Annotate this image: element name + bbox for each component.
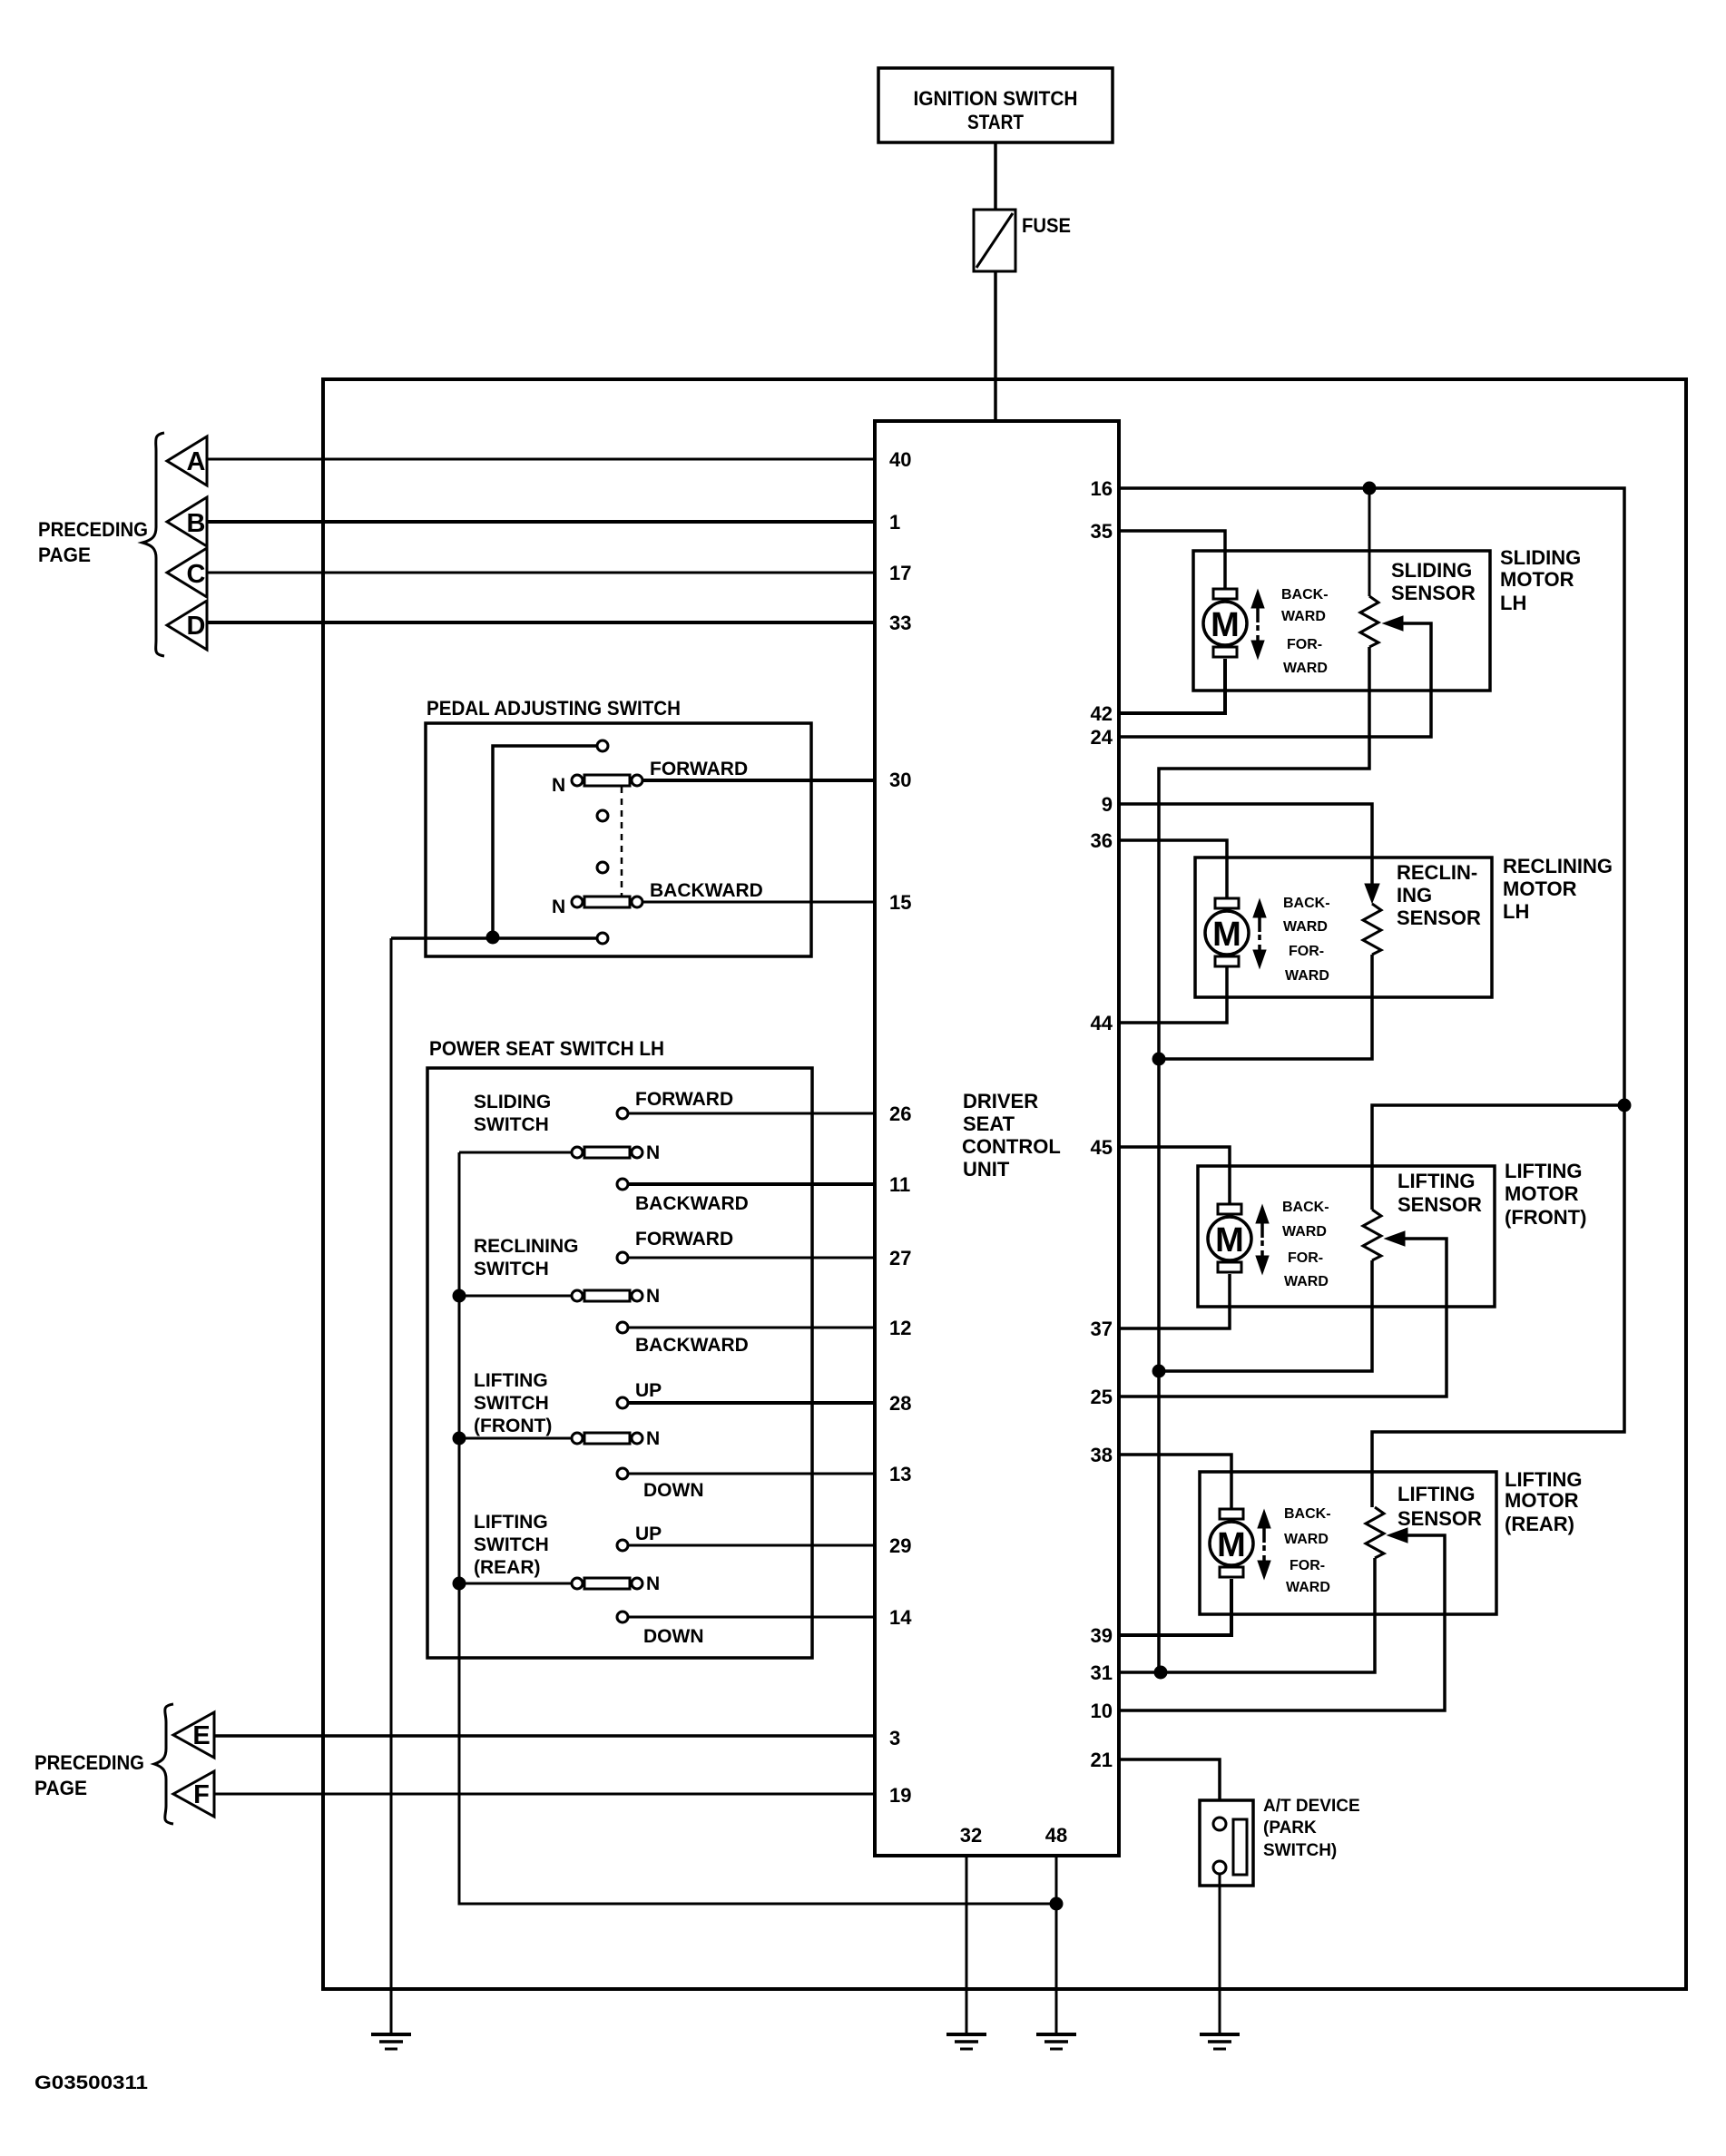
motor M3 (lifting front) (1208, 1204, 1251, 1272)
svg-text:BACKWARD: BACKWARD (635, 1193, 749, 1214)
wire pin 42 to sliding motor (1119, 659, 1225, 713)
label PRECEDING PAGE (top) (38, 518, 148, 566)
label LIFTING SWITCH (REAR) (474, 1512, 549, 1578)
wire pedal forward to pin 30 (643, 779, 875, 782)
svg-text:N: N (552, 775, 565, 796)
svg-text:FOR-: FOR- (1287, 637, 1322, 652)
svg-text:39: 39 (1091, 1624, 1113, 1647)
svg-text:40: 40 (889, 448, 911, 471)
label FOR-WARD (front) (1284, 1250, 1329, 1289)
wire pin 21 to A/T device (1119, 1759, 1220, 1818)
ground G2 (pin 32) (946, 2034, 986, 2049)
svg-text:FORWARD: FORWARD (635, 1089, 733, 1110)
label LIFTING SENSOR (front) (1397, 1170, 1482, 1216)
svg-text:SENSOR: SENSOR (1397, 1193, 1482, 1216)
wire pin 37 to lifting front motor (1119, 1274, 1230, 1328)
wire 16 rail branch to lifting front sensor top (1372, 1105, 1624, 1210)
arrow up (sliding backward) (1251, 590, 1264, 622)
label BACK-WARD (rear) (1284, 1506, 1331, 1547)
wire pin 35 to sliding motor (1119, 531, 1225, 591)
lifting front switch N contacts (572, 1433, 642, 1444)
label RECLINING SWITCH (474, 1236, 579, 1279)
wire E to pin 3 (214, 1734, 875, 1738)
svg-text:B: B (187, 509, 206, 538)
svg-text:LH: LH (1503, 900, 1529, 923)
label BACK-WARD (front) (1282, 1200, 1329, 1240)
label LIFTING SWITCH (FRONT) (474, 1370, 552, 1436)
wire sliding forward to pin 26 (628, 1112, 875, 1115)
svg-text:3: 3 (889, 1727, 900, 1749)
label SLIDING SENSOR (1391, 559, 1476, 604)
svg-text:(PARK: (PARK (1263, 1818, 1317, 1837)
junction pin16 to sliding sensor (1363, 482, 1376, 495)
svg-text:M: M (1212, 916, 1241, 954)
reclining motor LH box (1195, 857, 1492, 997)
svg-text:N: N (552, 897, 565, 917)
svg-text:26: 26 (889, 1102, 911, 1125)
junction N bus reclining (453, 1289, 466, 1302)
reclining switch N contacts (572, 1290, 642, 1301)
svg-text:LIFTING: LIFTING (474, 1512, 548, 1533)
svg-text:36: 36 (1091, 829, 1113, 852)
wire pin 39 to lifting rear motor (1119, 1579, 1231, 1635)
svg-text:BACK-: BACK- (1281, 587, 1329, 603)
arrow up (front backward) (1256, 1205, 1269, 1238)
svg-text:SWITCH: SWITCH (474, 1114, 549, 1135)
wire pin 9 to reclining sensor (1119, 804, 1372, 887)
svg-text:ING: ING (1397, 884, 1432, 906)
svg-text:15: 15 (889, 891, 911, 914)
arrowhead sliding wiper (1383, 616, 1403, 631)
wire lifting rear sensor bottom to pin 31 (1119, 1558, 1375, 1672)
label LIFTING SENSOR (rear) (1397, 1483, 1482, 1530)
lifting rear up contact (617, 1540, 628, 1551)
lifting rear down contact (617, 1612, 628, 1622)
label SLIDING MOTOR LH (1500, 546, 1581, 614)
wire A to pin 40 (207, 458, 875, 461)
svg-text:WARD: WARD (1285, 968, 1329, 984)
wire pin 45 to lifting front motor (1119, 1147, 1230, 1205)
svg-text:32: 32 (960, 1824, 982, 1847)
arrow up (rear backward) (1258, 1510, 1270, 1543)
wire pin 25 to lifting front sensor wiper (1119, 1239, 1447, 1396)
sliding motor LH box (1193, 551, 1490, 691)
wire pin 10 to lifting rear sensor wiper (1119, 1535, 1445, 1710)
wire lifting rear down to pin 14 (628, 1616, 875, 1619)
svg-text:44: 44 (1091, 1012, 1113, 1034)
lifting front down contact (617, 1468, 628, 1479)
ground G3 (pin 48) (1036, 2034, 1076, 2049)
svg-text:(REAR): (REAR) (1505, 1513, 1574, 1535)
wire sliding sensor top (1368, 488, 1371, 596)
power seat switch box S2 (427, 1068, 812, 1658)
svg-text:PRECEDING: PRECEDING (34, 1751, 144, 1774)
svg-text:MOTOR: MOTOR (1505, 1182, 1579, 1205)
svg-text:N: N (646, 1428, 660, 1449)
wire reclining sensor bottom to return bus (1159, 955, 1372, 1059)
label SLIDING SWITCH (474, 1092, 551, 1135)
svg-text:SENSOR: SENSOR (1397, 1507, 1482, 1530)
svg-text:UNIT: UNIT (963, 1158, 1010, 1181)
lifting rear sensor resistor R4 (1366, 1507, 1384, 1558)
svg-text:M: M (1217, 1526, 1246, 1564)
svg-text:38: 38 (1091, 1444, 1113, 1466)
wire C to pin 17 (207, 572, 875, 574)
svg-text:FUSE: FUSE (1022, 214, 1071, 237)
ignition switch box (878, 68, 1113, 142)
wire fuse to control unit (994, 271, 997, 421)
svg-text:29: 29 (889, 1534, 911, 1557)
svg-text:BACK-: BACK- (1284, 1506, 1331, 1522)
label BACK-WARD (reclining) (1283, 896, 1330, 935)
svg-text:LH: LH (1500, 592, 1526, 614)
svg-text:FORWARD: FORWARD (635, 1229, 733, 1249)
svg-text:FOR-: FOR- (1289, 944, 1324, 959)
svg-text:12: 12 (889, 1317, 911, 1339)
sliding backward contact (617, 1179, 628, 1190)
connector triangle D (167, 601, 207, 650)
svg-text:25: 25 (1091, 1386, 1113, 1408)
wire lifting front sensor bottom to return bus (1159, 1260, 1372, 1371)
wire pedal bottom contact to ground run (391, 936, 596, 940)
svg-text:RECLIN-: RECLIN- (1397, 861, 1477, 884)
svg-text:SLIDING: SLIDING (1500, 546, 1581, 569)
svg-text:(REAR): (REAR) (474, 1557, 541, 1578)
arrowhead lifting rear wiper (1388, 1528, 1407, 1543)
svg-text:45: 45 (1091, 1136, 1113, 1159)
svg-text:28: 28 (889, 1392, 911, 1415)
label PRECEDING PAGE (bottom) (34, 1751, 144, 1799)
svg-text:F: F (193, 1780, 210, 1809)
connector triangle A (167, 436, 207, 485)
label RECLIN-ING SENSOR (1397, 861, 1481, 929)
junction return bus lifting front (1152, 1365, 1165, 1377)
lifting motor rear box (1200, 1472, 1496, 1614)
svg-text:11: 11 (889, 1173, 910, 1196)
svg-text:MOTOR: MOTOR (1503, 877, 1577, 900)
wire D to pin 33 (207, 621, 875, 624)
pedal mid contact 1 (597, 810, 608, 821)
junction return bus pin 31 (1154, 1666, 1167, 1679)
label FOR-WARD (reclining) (1285, 944, 1329, 984)
wire sliding sensor bottom to return bus (1159, 647, 1369, 1672)
wire B to pin 1 (207, 520, 875, 524)
outer boundary box (323, 379, 1686, 1989)
pedal adjusting switch box S1 (426, 723, 811, 956)
wire N bus to lifting rear N (459, 1583, 572, 1585)
ground G4 (A/T device) (1200, 2034, 1240, 2049)
svg-text:MOTOR: MOTOR (1505, 1489, 1579, 1512)
svg-text:PEDAL ADJUSTING SWITCH: PEDAL ADJUSTING SWITCH (427, 697, 681, 720)
wire pedal backward to pin 15 (643, 901, 875, 904)
svg-text:WARD: WARD (1284, 1532, 1329, 1547)
brace top group (142, 433, 164, 656)
svg-text:FOR-: FOR- (1288, 1250, 1323, 1266)
wire pin 16 rail (1119, 488, 1624, 1507)
connector triangle B (167, 497, 207, 546)
svg-text:WARD: WARD (1282, 1224, 1327, 1240)
svg-text:C: C (187, 560, 206, 589)
svg-text:M: M (1211, 606, 1240, 644)
svg-text:IGNITION SWITCH: IGNITION SWITCH (914, 87, 1078, 110)
wire pedal to ground (vertical) (390, 938, 393, 2034)
svg-text:DOWN: DOWN (643, 1480, 704, 1501)
label BACK-WARD (sliding) (1281, 587, 1329, 624)
svg-text:BACKWARD: BACKWARD (635, 1335, 749, 1356)
wire lifting rear up to pin 29 (628, 1544, 875, 1547)
wire pin 36 to reclining motor (1119, 840, 1227, 900)
svg-text:27: 27 (889, 1247, 911, 1269)
svg-text:30: 30 (889, 769, 911, 791)
svg-text:FORWARD: FORWARD (650, 759, 748, 779)
lifting rear switch N contacts (572, 1578, 642, 1589)
arrow up (reclining backward) (1253, 899, 1266, 932)
svg-text:42: 42 (1091, 702, 1113, 725)
wire pin 38 to lifting rear motor (1119, 1455, 1231, 1510)
connector triangle C (167, 548, 207, 597)
svg-text:SWITCH: SWITCH (474, 1393, 549, 1414)
svg-text:BACKWARD: BACKWARD (650, 880, 763, 901)
svg-text:WARD: WARD (1286, 1580, 1330, 1595)
wire lifting front down to pin 13 (628, 1473, 875, 1475)
sliding sensor resistor R1 (1360, 596, 1378, 647)
svg-text:D: D (187, 612, 206, 641)
svg-text:LIFTING: LIFTING (1397, 1170, 1476, 1192)
svg-text:BACK-: BACK- (1283, 896, 1330, 911)
lifting motor front box (1198, 1166, 1495, 1307)
svg-text:POWER SEAT SWITCH LH: POWER SEAT SWITCH LH (429, 1037, 664, 1060)
pedal bottom contact (597, 933, 608, 944)
svg-text:SLIDING: SLIDING (474, 1092, 551, 1112)
label LIFTING MOTOR (FRONT) (1505, 1160, 1586, 1229)
wire N bus to reclining N (459, 1295, 572, 1298)
svg-text:(FRONT): (FRONT) (1505, 1206, 1586, 1229)
svg-text:WARD: WARD (1284, 1274, 1329, 1289)
junction N bus lifting rear (453, 1577, 466, 1590)
svg-text:LIFTING: LIFTING (474, 1370, 548, 1391)
svg-text:SWITCH: SWITCH (474, 1534, 549, 1555)
reclining backward contact (617, 1322, 628, 1333)
svg-text:E: E (192, 1721, 210, 1750)
ground G1 (pedal) (371, 2034, 411, 2049)
junction 16 rail to lifting front sensor (1618, 1099, 1631, 1112)
wire N bus to lifting front N (459, 1437, 572, 1440)
fuse (974, 210, 1015, 271)
svg-text:SWITCH: SWITCH (474, 1259, 549, 1279)
reclining forward contact (617, 1252, 628, 1263)
svg-text:N: N (646, 1142, 660, 1163)
power seat N bus wire (459, 1152, 1056, 1904)
svg-text:SENSOR: SENSOR (1397, 906, 1481, 929)
wire sliding backward to pin 11 (628, 1182, 875, 1186)
svg-text:35: 35 (1091, 520, 1113, 543)
brace bottom group (154, 1704, 173, 1824)
svg-text:PAGE: PAGE (38, 544, 91, 566)
arrow down dashed (sliding forward) (1251, 625, 1264, 659)
wire reclining forward to pin 27 (628, 1257, 875, 1259)
wire pin 44 to reclining motor (1119, 965, 1227, 1023)
label FOR-WARD (rear) (1286, 1558, 1330, 1595)
junction pedal N bus (486, 931, 499, 944)
svg-text:RECLINING: RECLINING (474, 1236, 579, 1257)
label RECLINING MOTOR LH (1503, 855, 1613, 923)
svg-text:33: 33 (889, 612, 911, 634)
svg-text:21: 21 (1091, 1749, 1113, 1771)
lifting front up contact (617, 1397, 628, 1408)
svg-text:N: N (646, 1573, 660, 1594)
wire N bus to sliding N (459, 1151, 572, 1154)
svg-text:START: START (967, 111, 1024, 133)
svg-text:M: M (1215, 1221, 1244, 1259)
svg-text:24: 24 (1091, 726, 1113, 749)
svg-text:WARD: WARD (1283, 661, 1328, 676)
arrow down dashed (rear forward) (1258, 1545, 1270, 1579)
svg-text:UP: UP (635, 1380, 662, 1401)
wire pin 32 to ground (966, 1856, 968, 2034)
wire F to pin 19 (214, 1793, 875, 1796)
label LIFTING MOTOR (REAR) (1505, 1468, 1583, 1535)
svg-text:RECLINING: RECLINING (1503, 855, 1613, 877)
arrowhead reclining sensor (down) (1365, 884, 1379, 903)
pedal backward switch contacts (572, 897, 642, 907)
svg-text:SENSOR: SENSOR (1391, 582, 1476, 604)
pedal switch common contact (top) (597, 740, 608, 751)
svg-text:MOTOR: MOTOR (1500, 568, 1574, 591)
svg-text:G03500311: G03500311 (34, 2073, 148, 2093)
wire pedal common to N bus (493, 746, 596, 936)
sliding forward contact (617, 1108, 628, 1119)
svg-text:10: 10 (1091, 1700, 1113, 1722)
svg-text:N: N (646, 1286, 660, 1307)
svg-text:14: 14 (889, 1606, 912, 1629)
label A/T DEVICE (PARK SWITCH) (1263, 1797, 1360, 1860)
label FOR-WARD (sliding) (1283, 637, 1328, 676)
wire ignition switch to fuse (994, 142, 997, 210)
svg-text:LIFTING: LIFTING (1505, 1468, 1583, 1491)
svg-text:13: 13 (889, 1463, 911, 1485)
junction return bus reclining (1152, 1053, 1165, 1065)
svg-text:19: 19 (889, 1784, 911, 1807)
svg-text:31: 31 (1091, 1661, 1113, 1684)
svg-text:9: 9 (1102, 793, 1113, 816)
svg-text:WARD: WARD (1283, 919, 1328, 935)
driver seat control unit U1 (875, 421, 1119, 1856)
connector triangle F (173, 1771, 214, 1817)
svg-text:37: 37 (1091, 1318, 1113, 1340)
A/T device (park switch) box (1200, 1800, 1253, 1886)
connector triangle E (173, 1712, 214, 1758)
svg-text:1: 1 (889, 511, 900, 534)
svg-text:DOWN: DOWN (643, 1626, 704, 1647)
svg-text:BACK-: BACK- (1282, 1200, 1329, 1215)
svg-text:FOR-: FOR- (1290, 1558, 1325, 1573)
svg-text:SLIDING: SLIDING (1391, 559, 1472, 582)
svg-text:DRIVER: DRIVER (963, 1090, 1038, 1112)
motor M4 (lifting rear) (1210, 1509, 1253, 1577)
dashed switch link (pedal) (621, 787, 623, 896)
junction N bus lifting front (453, 1432, 466, 1445)
arrow down dashed (reclining forward) (1253, 935, 1266, 968)
motor M2 (reclining) (1205, 898, 1249, 966)
wire pin 48 to ground (1055, 1856, 1058, 2034)
wire reclining backward to pin 12 (628, 1327, 875, 1329)
reclining sensor resistor R2 (1363, 904, 1381, 955)
wire lifting front up to pin 28 (628, 1401, 875, 1405)
svg-text:PAGE: PAGE (34, 1777, 87, 1799)
pedal mid contact 2 (597, 862, 608, 873)
lifting front sensor resistor R3 (1363, 1210, 1381, 1260)
svg-text:LIFTING: LIFTING (1505, 1160, 1583, 1182)
svg-text:SWITCH): SWITCH) (1263, 1841, 1337, 1860)
arrowhead lifting front wiper (1385, 1231, 1405, 1246)
arrow down dashed (front forward) (1256, 1240, 1269, 1274)
svg-text:(FRONT): (FRONT) (474, 1416, 552, 1436)
svg-text:48: 48 (1045, 1824, 1067, 1847)
pedal forward switch contacts (572, 775, 642, 786)
svg-text:CONTROL: CONTROL (962, 1135, 1061, 1158)
sliding switch N contacts (572, 1147, 642, 1158)
svg-text:SEAT: SEAT (963, 1112, 1015, 1135)
wire pin 24 to sliding sensor wiper (1119, 623, 1431, 737)
wire A/T device to ground (1219, 1874, 1221, 2034)
motor M1 (sliding) (1203, 589, 1247, 657)
junction N bus to pin 48 wire (1050, 1897, 1063, 1910)
svg-text:PRECEDING: PRECEDING (38, 518, 148, 541)
svg-text:UP: UP (635, 1524, 662, 1544)
svg-text:16: 16 (1091, 477, 1113, 500)
svg-text:LIFTING: LIFTING (1397, 1483, 1476, 1505)
svg-text:WARD: WARD (1281, 609, 1326, 624)
svg-text:A: A (187, 447, 206, 476)
svg-text:A/T DEVICE: A/T DEVICE (1263, 1797, 1360, 1816)
svg-text:17: 17 (889, 562, 911, 584)
